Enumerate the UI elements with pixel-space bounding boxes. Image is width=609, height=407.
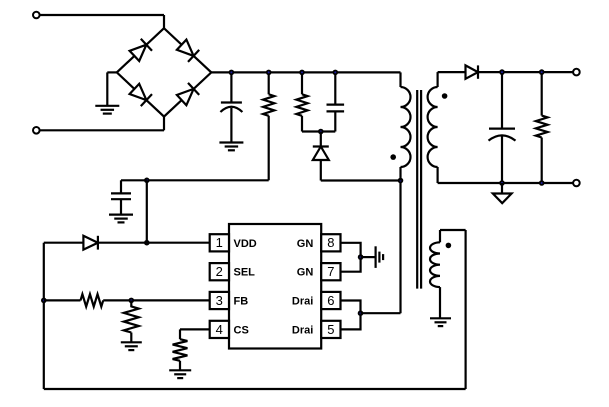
pin 8 box (321, 234, 340, 251)
node clamp-diode (318, 129, 324, 135)
pin 2 box (210, 263, 229, 280)
wire left rail (43, 243, 45, 389)
wire DC bus (211, 71, 400, 73)
node C1-bus (229, 70, 235, 76)
wire bridge left to ground (107, 71, 117, 73)
input terminal J2 (neutral) (33, 127, 40, 134)
wire secondary to D4 (438, 71, 466, 73)
svg-text:3: 3 (216, 293, 223, 308)
node left-rail FB tee (41, 298, 47, 304)
pin 4 box (210, 321, 229, 338)
output terminal + (573, 69, 580, 76)
wire clamp to primary (321, 179, 401, 181)
node VDD line (144, 240, 150, 246)
wire VDD line to pin1 (98, 242, 210, 244)
pin 3 box (210, 292, 229, 309)
transformer T1 aux winding (430, 242, 440, 287)
svg-text:FB: FB (234, 296, 249, 308)
diode D3 (clamp) (320, 132, 322, 147)
node R6 top (539, 69, 545, 75)
wire drain run (361, 312, 401, 314)
wire aux right riser (465, 230, 467, 389)
svg-text:VDD: VDD (234, 238, 257, 250)
node R1-bus (266, 70, 272, 76)
wire to signal ground (361, 256, 375, 258)
diode D2 (VDD) (44, 242, 84, 244)
pin 7 box (321, 263, 340, 280)
svg-text:Drai: Drai (292, 324, 313, 336)
svg-text:GN: GN (297, 238, 314, 250)
resistor R5 (CS) (173, 339, 188, 361)
pin 1 box (210, 234, 229, 251)
wire to C2 (121, 179, 147, 181)
capacitor C2 (VDD) (111, 192, 131, 194)
wire to output ground (501, 183, 503, 194)
node C3-bus (333, 70, 339, 76)
node C4 top (499, 69, 505, 75)
svg-text:6: 6 (327, 293, 334, 308)
wire VDD drop (146, 180, 148, 242)
wire R1 to VDD cap node (268, 116, 270, 181)
capacitor C3 (clamp) (334, 72, 336, 104)
wire pin8-7 join (341, 243, 361, 272)
pin 6 box (321, 292, 340, 309)
node C4 bottom (499, 180, 505, 186)
bridge diode D1a (left-top) (130, 45, 147, 61)
bridge diode D1b (top-right) (177, 40, 194, 56)
svg-text:1: 1 (216, 235, 223, 250)
node VDD-cap junction (144, 178, 150, 184)
wire pin6-5 join (341, 301, 361, 330)
ground at aux (430, 317, 451, 319)
primary phase dot (390, 154, 396, 160)
svg-text:CS: CS (234, 324, 249, 336)
svg-text:7: 7 (327, 264, 334, 279)
diode D4 (output) (466, 65, 479, 78)
wire bridge bottom to J2 line (163, 117, 165, 131)
svg-text:GN: GN (297, 267, 314, 279)
node R6 bottom (539, 180, 545, 186)
resistor R3 (FB upper) (44, 299, 81, 301)
IC U1 body (229, 224, 321, 349)
svg-text:SEL: SEL (234, 267, 256, 279)
capacitor C1 (bulk) (230, 72, 232, 102)
bridge diode D1d (bottom-right) (177, 89, 194, 105)
svg-text:2: 2 (216, 264, 223, 279)
transformer core (416, 90, 418, 289)
resistor R4 (FB lower) (130, 300, 132, 307)
wire CS (180, 328, 210, 330)
pin 5 box (321, 321, 340, 338)
svg-text:8: 8 (327, 235, 334, 250)
resistor R2 (clamp) (301, 72, 303, 94)
node pin6-5 (358, 310, 364, 316)
wire bottom return rail (44, 388, 466, 390)
resistor R6 (load) (541, 72, 543, 116)
ground (bar style) at pins 8-7 (375, 246, 377, 268)
ground at bridge (95, 105, 119, 107)
bridge rectifier BD1 diamond (117, 28, 212, 116)
ground (triangle) output (493, 194, 512, 204)
bridge diode D1c (left-bottom) (130, 84, 147, 100)
transformer T1 secondary (437, 72, 439, 87)
ground at R4 (121, 341, 142, 343)
secondary phase dot (442, 93, 448, 99)
resistor R1 (startup) (268, 72, 270, 94)
node primary-drain (398, 178, 404, 184)
svg-text:Drai: Drai (292, 296, 313, 308)
aux phase dot (446, 243, 452, 249)
node FB divider (129, 298, 135, 304)
node R2-bus (299, 70, 305, 76)
svg-text:5: 5 (327, 322, 334, 337)
svg-text:4: 4 (216, 322, 223, 337)
wire J1 to bridge top (163, 15, 165, 28)
transformer T1 primary (399, 72, 401, 87)
output terminal - (573, 180, 580, 187)
input terminal J1 (line) (33, 12, 40, 19)
wire output+ (478, 71, 573, 73)
ground at C1 (219, 141, 243, 143)
ground at R5 (169, 369, 191, 371)
wire output- rail (438, 182, 573, 184)
wire clamp bottom (302, 130, 335, 132)
node pin8-7 (358, 254, 364, 260)
capacitor C4 (output) (501, 72, 503, 129)
ground at C2 (109, 214, 133, 216)
